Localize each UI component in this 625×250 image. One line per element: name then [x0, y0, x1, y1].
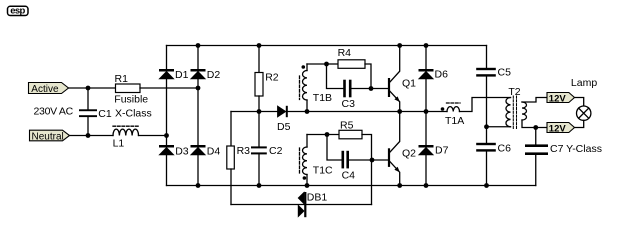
svg-text:D1: D1: [175, 69, 189, 81]
wire R2 top lead: [258, 46, 260, 73]
svg-text:D6: D6: [435, 69, 449, 81]
junction bottom rail D7: [424, 183, 429, 188]
wire R2 bottom lead: [258, 96, 260, 112]
node Neutral input tag: [30, 130, 70, 141]
wire D2 column upper: [197, 46, 199, 70]
resistor R2: [255, 73, 263, 97]
wire upper tag to lamp: [575, 98, 584, 107]
svg-text:D4: D4: [207, 146, 221, 158]
wire C1 bottom lead: [87, 117, 89, 135]
wire T1C top to node: [307, 134, 339, 136]
polarity dot T1C: [303, 176, 307, 180]
wire T1B top lead: [306, 64, 308, 71]
svg-text:C5: C5: [498, 67, 512, 79]
wire C1 top lead: [87, 88, 89, 109]
transformer winding T1C: [303, 147, 308, 175]
wire L1 to bridge: [139, 135, 167, 137]
capacitor C7: [525, 144, 548, 147]
resistor R4: [338, 60, 365, 69]
wire T1B top to node: [307, 63, 327, 65]
node 12V lower tag: [547, 123, 575, 133]
resistor R5: [339, 130, 362, 139]
junction mid T1B: [305, 109, 310, 114]
svg-text:Active: Active: [31, 84, 59, 95]
wire C5-C6 middle: [486, 77, 488, 143]
junction neutral-C1: [86, 133, 91, 138]
junction R5-C4 left: [325, 132, 330, 137]
svg-text:C3: C3: [342, 98, 356, 110]
diode D5: [278, 106, 286, 117]
ESP logo: [8, 6, 29, 17]
junction bottom rail T1C: [305, 183, 310, 188]
wire C5 top lead: [486, 46, 488, 68]
wire R1 to bridge: [140, 87, 198, 89]
wire Neutral to L1: [70, 135, 114, 137]
svg-text:L1: L1: [113, 138, 125, 150]
transformer T2 secondary: [522, 102, 527, 120]
svg-text:Q1: Q1: [402, 78, 416, 90]
wire C3 branch left: [327, 64, 344, 89]
svg-text:Fusible: Fusible: [114, 94, 148, 106]
wire R3 to diac line: [230, 169, 232, 205]
svg-text:X-Class: X-Class: [115, 108, 152, 120]
wire D3 column lower: [166, 155, 168, 186]
junction top rail D2: [196, 43, 201, 48]
wire D1-D3 column middle: [166, 79, 168, 145]
wire C7 top lead: [535, 128, 537, 145]
junction Q1 base node: [369, 86, 374, 91]
wire bottom rail: [167, 185, 536, 187]
svg-text:D2: D2: [207, 69, 221, 81]
svg-text:esp: esp: [10, 6, 25, 17]
svg-text:12V: 12V: [549, 93, 567, 104]
junction top rail R2: [257, 43, 262, 48]
wire C7 bottom lead: [535, 155, 537, 186]
transformer winding T1A: [447, 107, 460, 112]
capacitor C3: [343, 80, 346, 98]
junction mid R2: [257, 109, 262, 114]
wire D6 column upper: [425, 46, 427, 70]
diode D2: [191, 69, 206, 72]
junction active-C1: [86, 86, 91, 91]
wire T2 primary return: [487, 126, 511, 128]
wire D6-D7 column middle: [425, 79, 427, 145]
wire C4 branch left: [327, 135, 342, 161]
wire R4 left lead: [327, 63, 339, 65]
junction bottom rail Q2: [397, 183, 402, 188]
svg-text:C7 Y-Class: C7 Y-Class: [550, 143, 602, 155]
svg-text:T1A: T1A: [445, 115, 464, 127]
resistor R3: [227, 146, 235, 169]
junction top rail D6: [424, 43, 429, 48]
svg-text:D7: D7: [435, 144, 449, 156]
capacitor C5: [476, 68, 496, 70]
polarity dot T1A: [441, 107, 445, 111]
svg-text:Neutral: Neutral: [32, 131, 64, 142]
transformer T2 primary: [506, 98, 511, 127]
wire diac line: [231, 204, 372, 206]
wire R4 right lead: [365, 64, 371, 89]
svg-text:Q2: Q2: [402, 148, 416, 160]
junction active-bridge: [196, 86, 201, 91]
lamp: [577, 106, 591, 120]
svg-text:C2: C2: [269, 145, 283, 157]
wire mid line right: [288, 111, 447, 113]
junction bottom rail D4: [196, 183, 201, 188]
junction bottom rail C2: [257, 183, 262, 188]
wire D2-D4 column middle: [197, 79, 199, 145]
wire mid line left: [231, 111, 278, 113]
wire C2 bottom lead: [258, 154, 260, 185]
junction mid D6-D7: [424, 109, 429, 114]
diac DB1: [298, 192, 304, 204]
junction Q2 base node: [370, 158, 375, 163]
wire C4 to Q2 base: [349, 159, 388, 161]
svg-text:R3: R3: [237, 145, 251, 157]
svg-text:R4: R4: [338, 47, 352, 59]
transistor Q1: [388, 78, 390, 97]
transistor Q2: [388, 148, 390, 167]
wire T1C top lead: [306, 135, 308, 148]
resistor R1: [116, 84, 141, 93]
diode D1: [159, 69, 174, 72]
wire D4 column lower: [197, 155, 199, 186]
diode D6: [419, 69, 434, 72]
polarity dot T1B: [302, 65, 306, 69]
junction R4-C3 left: [324, 62, 329, 67]
wire diac to Q2 base: [371, 160, 373, 205]
svg-text:T1B: T1B: [313, 92, 332, 104]
svg-text:R2: R2: [265, 71, 279, 83]
transformer winding T1B: [303, 71, 308, 101]
wire lamp to lower tag: [575, 120, 584, 127]
diode D4: [191, 145, 206, 148]
wire R3 top lead: [230, 112, 232, 147]
capacitor C4: [342, 151, 345, 169]
wire D1 column upper: [166, 46, 168, 70]
junction neutral-bridge: [164, 133, 169, 138]
capacitor C2: [251, 146, 267, 148]
capacitor C1: [79, 109, 97, 111]
wire C6 bottom lead: [486, 152, 488, 186]
capacitor C6: [476, 143, 496, 145]
wire T2 secondary bottom: [522, 120, 547, 128]
transformer T2 core: [512, 96, 514, 129]
junction mid Q1-Q2: [397, 109, 402, 114]
wire T1B bottom lead: [306, 100, 308, 112]
inductor L1: [113, 129, 139, 135]
wire C3 to Q1 base: [352, 88, 388, 90]
svg-text:T2: T2: [508, 86, 520, 98]
svg-text:12V: 12V: [549, 123, 567, 134]
wire top rail: [167, 45, 487, 47]
node 12V upper tag: [547, 93, 575, 103]
svg-text:D5: D5: [277, 121, 291, 133]
junction C7 top: [533, 125, 538, 130]
wire C2 top lead: [258, 112, 260, 147]
junction top rail Q1: [397, 43, 402, 48]
svg-text:C1: C1: [98, 108, 112, 120]
wire T2 secondary top: [522, 98, 547, 103]
wire D7 column lower: [425, 155, 427, 186]
diode D7: [419, 145, 434, 148]
wire R5 right lead: [362, 135, 372, 161]
junction bottom rail C6: [484, 183, 489, 188]
wire T1A to T2: [460, 98, 511, 112]
wire T1C bottom lead: [306, 175, 308, 186]
svg-text:C6: C6: [498, 142, 512, 154]
svg-text:D3: D3: [175, 146, 189, 158]
wire Active to R1: [69, 87, 116, 89]
svg-text:T1C: T1C: [313, 165, 333, 177]
node Active input tag: [29, 83, 69, 94]
diode D3: [159, 145, 174, 148]
svg-text:R5: R5: [340, 119, 354, 131]
svg-text:C4: C4: [342, 170, 356, 182]
svg-text:DB1: DB1: [307, 192, 328, 204]
svg-text:R1: R1: [115, 73, 129, 85]
svg-text:230V AC: 230V AC: [34, 105, 74, 117]
svg-text:Lamp: Lamp: [571, 77, 597, 89]
junction T2 return: [484, 124, 489, 129]
